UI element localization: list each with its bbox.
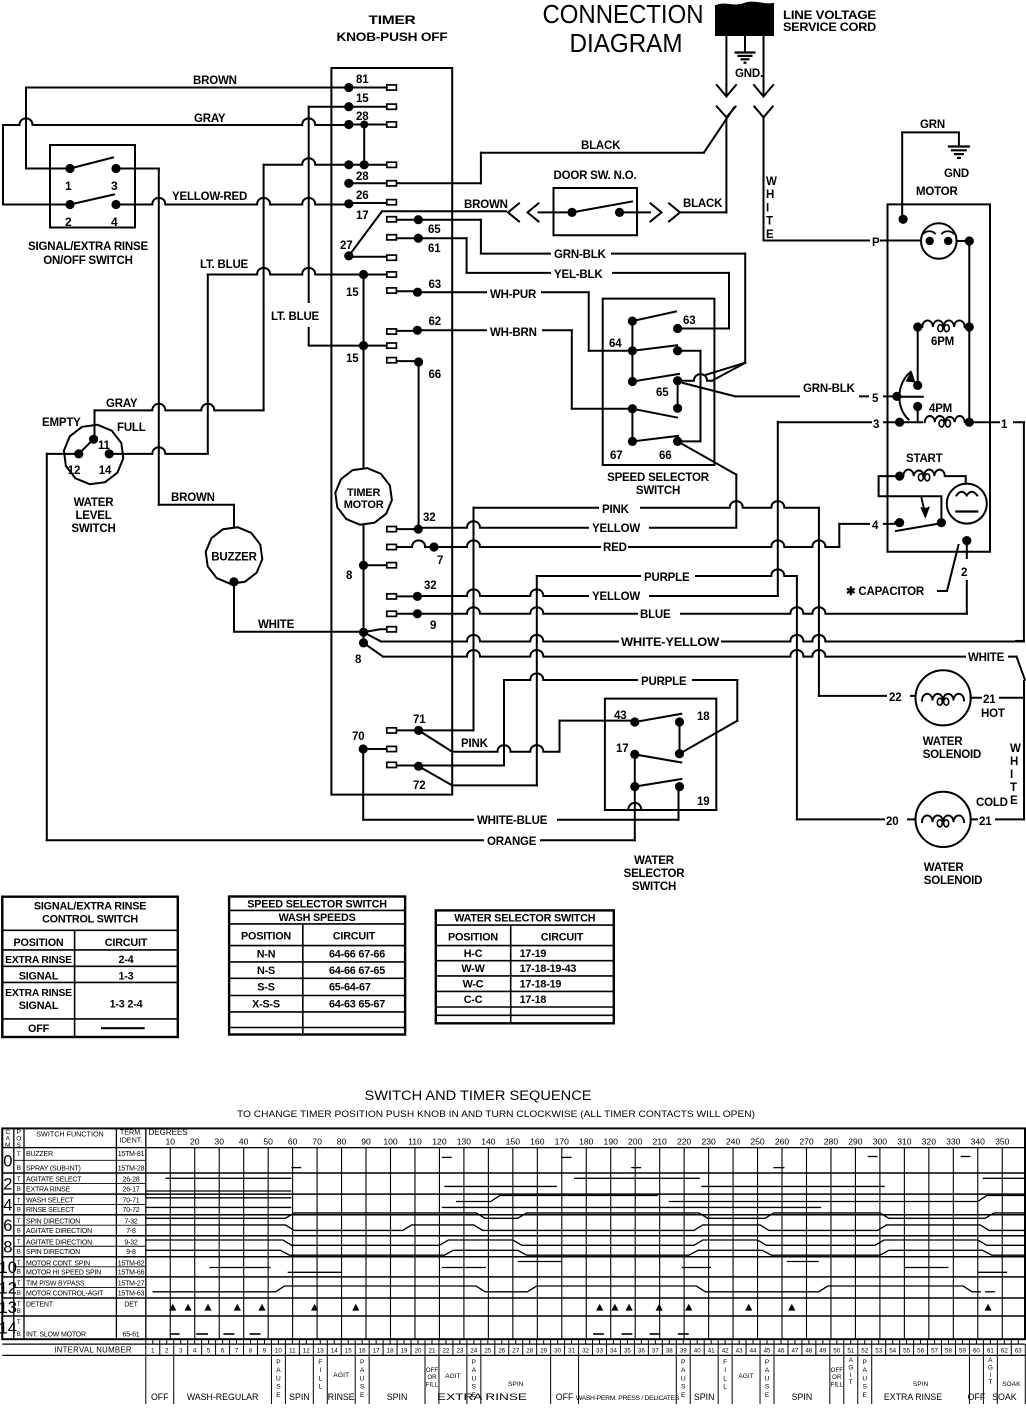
svg-text:U: U	[360, 1375, 365, 1382]
svg-text:AGIT: AGIT	[445, 1373, 460, 1380]
WLS pin 14	[105, 449, 114, 458]
svg-text:T: T	[17, 1239, 21, 1246]
svg-text:LT. BLUE: LT. BLUE	[271, 311, 320, 323]
svg-text:S: S	[765, 1384, 770, 1391]
svg-text:37: 37	[652, 1347, 659, 1354]
timer 15 junction 2	[359, 341, 368, 350]
svg-text:SPRAY (SUB-INT): SPRAY (SUB-INT)	[26, 1165, 81, 1172]
svg-text:9: 9	[263, 1347, 267, 1354]
svg-text:G: G	[988, 1364, 993, 1371]
svg-text:63: 63	[429, 279, 441, 291]
riser full to ltblue1	[207, 275, 209, 454]
wire orange riser into WS	[634, 787, 636, 841]
svg-text:BROWN: BROWN	[171, 492, 215, 504]
svg-text:12: 12	[303, 1347, 310, 1354]
motor terminal 5	[892, 395, 900, 397]
svg-text:E: E	[1010, 795, 1018, 807]
timer node 8 lower dots	[359, 628, 368, 637]
timer terminal 17	[344, 199, 353, 208]
svg-text:17: 17	[356, 210, 368, 222]
wire PINK2 row 71 to water sel 43	[419, 730, 453, 751]
svg-text:24: 24	[470, 1347, 477, 1354]
svg-text:SERVICE CORD: SERVICE CORD	[783, 22, 876, 34]
svg-text:LINE VOLTAGE: LINE VOLTAGE	[783, 10, 877, 22]
door switch box	[554, 188, 638, 235]
timer node 8 lower terminal	[364, 629, 387, 632]
svg-text:58: 58	[945, 1347, 952, 1354]
svg-text:N-S: N-S	[257, 965, 275, 977]
svg-text:PINK: PINK	[461, 738, 489, 750]
svg-text:TIMER: TIMER	[347, 487, 380, 499]
svg-text:FILL: FILL	[831, 1381, 844, 1388]
svg-text:90: 90	[361, 1137, 371, 1147]
svg-text:OFF: OFF	[831, 1367, 844, 1374]
svg-text:SOLENOID: SOLENOID	[924, 875, 982, 887]
svg-text:SPIN: SPIN	[289, 1392, 310, 1402]
wire BROWN row to door switch	[382, 210, 506, 212]
svg-text:M: M	[5, 1142, 11, 1149]
wire 15a left drop	[309, 106, 345, 108]
svg-text:21: 21	[979, 816, 992, 828]
WLS blade 12-11	[79, 438, 95, 454]
wire white-blue riser into WS	[678, 787, 680, 820]
svg-text:27: 27	[340, 240, 352, 252]
svg-text:B: B	[17, 1228, 21, 1235]
plug blade arrow left	[717, 85, 736, 97]
svg-text:5: 5	[207, 1347, 211, 1354]
svg-text:72: 72	[413, 780, 425, 792]
svg-text:62: 62	[1001, 1347, 1008, 1354]
svg-text:26: 26	[498, 1347, 505, 1354]
svg-text:43: 43	[736, 1347, 743, 1354]
svg-text:OFF: OFF	[556, 1392, 574, 1402]
svg-text:70: 70	[312, 1137, 322, 1147]
svg-text:T: T	[17, 1197, 21, 1204]
svg-text:F: F	[723, 1359, 727, 1366]
svg-text:WASH-PERM. PRESS / DELICATES: WASH-PERM. PRESS / DELICATES	[576, 1395, 680, 1402]
svg-text:66: 66	[659, 450, 671, 462]
svg-text:13: 13	[0, 1299, 17, 1317]
svg-text:17-18-19-43: 17-18-19-43	[520, 963, 577, 975]
wire LT. BLUE 2 row to 15 junction2	[309, 345, 359, 347]
svg-text:FULL: FULL	[117, 422, 146, 434]
wire BLACK diagonal to connector	[704, 108, 734, 153]
svg-text:27: 27	[512, 1347, 519, 1354]
svg-text:65-61: 65-61	[123, 1332, 140, 1339]
svg-text:4: 4	[872, 520, 879, 532]
motor right vertical	[957, 240, 970, 242]
timer 15 junction 1	[359, 270, 368, 279]
svg-text:OFF: OFF	[426, 1367, 439, 1374]
wire EMPTY pin12 to orange	[47, 453, 74, 455]
svg-text:11: 11	[289, 1347, 296, 1354]
svg-text:180: 180	[579, 1137, 594, 1147]
svg-text:330: 330	[946, 1137, 961, 1147]
svg-text:SPEED SELECTOR: SPEED SELECTOR	[607, 472, 710, 484]
SS inner U link 350.8-441.4	[678, 351, 701, 442]
wire PURPLE2 row 72 to water sel 18	[503, 680, 505, 766]
svg-text:EMPTY: EMPTY	[42, 417, 81, 429]
svg-text:150: 150	[506, 1137, 521, 1147]
svg-text:T: T	[17, 1260, 21, 1267]
wire purple drop to cold 20	[796, 576, 798, 819]
svg-text:350: 350	[995, 1137, 1010, 1147]
svg-text:300: 300	[873, 1137, 888, 1147]
svg-text:BROWN: BROWN	[193, 75, 237, 87]
svg-text:FILL: FILL	[426, 1381, 439, 1388]
svg-text:H: H	[766, 189, 774, 201]
wire YEL-BLK riser to speed switch 63	[728, 273, 730, 329]
svg-text:39: 39	[680, 1347, 687, 1354]
water level switch body	[64, 425, 123, 484]
timer terminal 9 row	[413, 609, 422, 618]
svg-text:18: 18	[387, 1347, 394, 1354]
svg-text:4: 4	[193, 1347, 197, 1354]
chart interval tick row	[2, 1343, 1025, 1345]
timer terminal 63 row	[413, 288, 422, 297]
svg-text:17-19: 17-19	[520, 948, 547, 960]
svg-text:HOT: HOT	[981, 708, 1005, 720]
svg-text:COLD: COLD	[976, 797, 1008, 809]
wire FULL pin14 riser	[114, 447, 208, 454]
svg-text:14: 14	[0, 1320, 17, 1338]
svg-text:B: B	[17, 1207, 21, 1214]
svg-text:TIMER: TIMER	[369, 13, 417, 27]
svg-text:U: U	[681, 1375, 686, 1382]
switch S1 pin 4	[111, 200, 120, 209]
svg-text:MOTOR HI SPEED SPIN: MOTOR HI SPEED SPIN	[26, 1269, 101, 1276]
svg-text:70: 70	[352, 731, 364, 743]
SS right contact low	[673, 404, 682, 413]
svg-text:12: 12	[0, 1279, 17, 1297]
svg-text:W: W	[766, 176, 777, 188]
svg-text:8: 8	[3, 1238, 12, 1256]
buzzer body	[206, 527, 263, 584]
svg-text:T: T	[988, 1379, 992, 1386]
svg-text:1-3: 1-3	[118, 970, 133, 982]
svg-text:C-C: C-C	[464, 994, 483, 1006]
svg-text:60: 60	[973, 1347, 980, 1354]
svg-text:65: 65	[656, 387, 669, 399]
svg-text:I: I	[724, 1367, 726, 1374]
svg-text:GRAY: GRAY	[194, 113, 226, 125]
svg-text:1: 1	[65, 179, 72, 193]
wire pink drop to hot 22	[818, 508, 820, 696]
svg-text:4PM: 4PM	[929, 403, 952, 415]
plug blade arrow right	[754, 85, 773, 97]
table water selector switch	[436, 910, 614, 1023]
svg-text:250: 250	[750, 1137, 765, 1147]
svg-text:28: 28	[356, 171, 369, 183]
svg-text:3: 3	[873, 419, 879, 431]
svg-text:E: E	[276, 1392, 281, 1399]
svg-text:YEL-BLK: YEL-BLK	[554, 269, 603, 281]
SS contact 63	[673, 324, 682, 333]
timer terminal 71	[414, 726, 423, 735]
svg-text:BROWN: BROWN	[464, 199, 508, 211]
svg-text:17: 17	[616, 743, 628, 755]
svg-text:36: 36	[638, 1347, 645, 1354]
svg-text:3: 3	[179, 1347, 183, 1354]
motor grn dot	[899, 215, 908, 224]
wire 3row to 1	[969, 421, 1024, 423]
svg-text:GND: GND	[944, 168, 969, 180]
svg-text:2: 2	[65, 215, 72, 229]
svg-text:170: 170	[555, 1137, 570, 1147]
wire WHITE-YELLOW row node8 to motor 1	[364, 632, 382, 641]
svg-text:SIGNAL: SIGNAL	[19, 1000, 59, 1012]
door switch connector chevrons left	[508, 203, 519, 221]
svg-text:9-8: 9-8	[126, 1249, 136, 1256]
wire 28a-28b link and down to 15 junctions	[363, 125, 365, 165]
WS bottom-right contact	[675, 782, 684, 791]
svg-text:T: T	[766, 216, 773, 228]
wire PINK row 71 to hot solenoid	[473, 508, 475, 731]
svg-text:10: 10	[0, 1259, 17, 1277]
svg-text:P: P	[360, 1359, 365, 1366]
svg-text:WHITE: WHITE	[968, 652, 1005, 664]
WS contact 17	[630, 750, 639, 759]
wire 65 to GRN-BLK	[396, 219, 481, 221]
timer terminal 62 row	[413, 326, 422, 335]
svg-text:S: S	[681, 1384, 686, 1391]
svg-text:65: 65	[428, 224, 441, 236]
chart outer border	[2, 1128, 1025, 1339]
svg-text:S-S: S-S	[257, 982, 274, 994]
svg-text:9-32: 9-32	[124, 1239, 138, 1246]
svg-text:30: 30	[214, 1137, 224, 1147]
svg-text:DETENT: DETENT	[26, 1302, 54, 1309]
timer terminal 61 row	[414, 234, 423, 243]
svg-text:53: 53	[875, 1347, 882, 1354]
svg-text:B: B	[17, 1249, 21, 1256]
svg-text:WATER: WATER	[634, 855, 675, 867]
wire plug right lead	[763, 35, 765, 84]
svg-text:23: 23	[456, 1347, 463, 1354]
WLS pin 12	[74, 449, 83, 458]
svg-text:230: 230	[701, 1137, 716, 1147]
buzzer bottom lead	[229, 577, 238, 586]
svg-text:26-28: 26-28	[123, 1177, 140, 1184]
svg-text:2: 2	[961, 567, 967, 579]
svg-text:EXTRA RINSE: EXTRA RINSE	[884, 1392, 942, 1402]
timer terminal 15 row a	[344, 102, 353, 111]
svg-text:9: 9	[430, 620, 436, 632]
svg-text:SWITCH FUNCTION: SWITCH FUNCTION	[36, 1130, 103, 1139]
svg-text:SPIN: SPIN	[913, 1381, 929, 1388]
timer terminal 81	[344, 83, 353, 92]
svg-text:51: 51	[847, 1347, 854, 1354]
svg-text:MOTOR CONTROL-AGIT: MOTOR CONTROL-AGIT	[26, 1290, 104, 1297]
svg-text:U: U	[471, 1375, 476, 1382]
svg-text:340: 340	[971, 1137, 986, 1147]
svg-text:16: 16	[359, 1347, 366, 1354]
WLS pin 11	[89, 435, 98, 444]
wire BROWN timer81 to switch pin1	[26, 87, 344, 89]
svg-text:160: 160	[530, 1137, 545, 1147]
svg-text:220: 220	[677, 1137, 692, 1147]
svg-text:14: 14	[331, 1347, 338, 1354]
svg-text:140: 140	[481, 1137, 496, 1147]
svg-text:LT. BLUE: LT. BLUE	[200, 259, 249, 271]
svg-text:8: 8	[249, 1347, 253, 1354]
svg-text:SWITCH: SWITCH	[632, 881, 676, 893]
svg-text:66: 66	[429, 369, 441, 381]
svg-text:17: 17	[373, 1347, 380, 1354]
wire motor 3 riser to yellow2	[777, 422, 779, 596]
svg-text:E: E	[766, 229, 774, 241]
WS right contact mid	[675, 749, 684, 758]
svg-text:DET: DET	[124, 1302, 138, 1309]
svg-text:4: 4	[111, 215, 118, 229]
svg-text:3: 3	[111, 179, 118, 193]
svg-text:PINK: PINK	[602, 504, 630, 516]
wire ORANGE row	[47, 839, 635, 841]
svg-text:59: 59	[959, 1347, 966, 1354]
wire 26 to BLACK riser	[353, 182, 481, 184]
svg-text:35: 35	[624, 1347, 631, 1354]
chart degree grid	[169, 1148, 171, 1340]
svg-text:110: 110	[408, 1137, 422, 1147]
wire RED jog to motor 4	[838, 524, 840, 547]
svg-text:8: 8	[346, 570, 353, 582]
wire 6PM to centrifugal contact	[917, 327, 919, 385]
svg-text:48: 48	[805, 1347, 812, 1354]
svg-text:20: 20	[886, 816, 898, 828]
svg-text:SOAK: SOAK	[992, 1392, 1017, 1402]
SS left contact mid	[628, 377, 637, 386]
motor terminal 3 row	[778, 421, 888, 423]
svg-text:SIGNAL/EXTRA RINSE: SIGNAL/EXTRA RINSE	[34, 901, 146, 913]
svg-text:ON/OFF SWITCH: ON/OFF SWITCH	[43, 255, 132, 267]
svg-text:POSITION: POSITION	[448, 932, 498, 944]
svg-text:G: G	[848, 1364, 853, 1371]
switch S1 pin 3	[111, 164, 120, 173]
svg-text:SWITCH: SWITCH	[71, 523, 115, 535]
WS blade bottom	[635, 779, 682, 787]
svg-text:S: S	[360, 1384, 365, 1391]
svg-text:A: A	[472, 1367, 477, 1374]
svg-text:POSITION: POSITION	[14, 937, 64, 949]
svg-text:S: S	[472, 1384, 477, 1391]
svg-text:290: 290	[848, 1137, 863, 1147]
door switch wire and contacts	[539, 211, 569, 213]
svg-text:YELLOW-RED: YELLOW-RED	[172, 191, 247, 203]
svg-text:WHITE: WHITE	[258, 619, 295, 631]
WS vertical links	[679, 722, 681, 754]
svg-text:B: B	[17, 1269, 21, 1276]
svg-text:AGIT: AGIT	[738, 1373, 753, 1380]
svg-text:E: E	[765, 1392, 770, 1399]
svg-text:7: 7	[235, 1347, 239, 1354]
chart header bottom line	[2, 1147, 1025, 1149]
svg-text:70-72: 70-72	[123, 1207, 140, 1214]
svg-text:6: 6	[3, 1217, 12, 1235]
svg-text:N-N: N-N	[257, 949, 276, 961]
timer motor lower lead to node 8	[363, 524, 365, 643]
svg-text:10: 10	[165, 1137, 175, 1147]
svg-text:38: 38	[666, 1347, 673, 1354]
svg-text:EXTRA RINSE: EXTRA RINSE	[5, 955, 72, 966]
svg-text:SPIN DIRECTION: SPIN DIRECTION	[26, 1218, 80, 1225]
svg-text:W-C: W-C	[463, 978, 484, 990]
svg-text:280: 280	[824, 1137, 839, 1147]
start winding bracket	[879, 476, 942, 517]
svg-text:45: 45	[764, 1347, 771, 1354]
4PM top contact	[913, 402, 922, 411]
svg-text:210: 210	[652, 1137, 667, 1147]
svg-text:PURPLE: PURPLE	[644, 572, 690, 584]
svg-text:START: START	[906, 453, 943, 465]
wire plug left lead	[725, 35, 727, 84]
svg-text:U: U	[276, 1375, 281, 1382]
svg-text:SIGNAL/EXTRA RINSE: SIGNAL/EXTRA RINSE	[28, 241, 148, 253]
wire WHITE buzzer to node8	[234, 631, 359, 633]
svg-text:34: 34	[610, 1347, 617, 1354]
svg-text:15TM-27: 15TM-27	[118, 1281, 145, 1288]
svg-text:A: A	[863, 1367, 868, 1374]
svg-text:OR: OR	[427, 1374, 437, 1381]
svg-text:43: 43	[614, 710, 626, 722]
WS blade 43	[635, 714, 682, 722]
wire YELLOW row 32a to SS66	[423, 521, 736, 528]
svg-text:6PM: 6PM	[931, 336, 954, 348]
timer terminal 32 row a	[414, 525, 423, 534]
svg-text:DIAGRAM: DIAGRAM	[570, 28, 683, 58]
svg-text:P: P	[872, 237, 880, 249]
svg-text:SPIN: SPIN	[694, 1392, 715, 1402]
svg-text:WATER: WATER	[924, 862, 965, 874]
svg-text:67: 67	[610, 450, 622, 462]
switch S1 blade 2-4	[70, 195, 114, 205]
svg-text:RINSE SELECT: RINSE SELECT	[26, 1207, 75, 1214]
svg-text:12: 12	[68, 465, 80, 477]
WS contact 43	[630, 717, 639, 726]
svg-text:54: 54	[889, 1347, 896, 1354]
capacitor plates	[956, 492, 977, 496]
svg-text:P: P	[276, 1359, 281, 1366]
svg-text:SPIN: SPIN	[387, 1392, 408, 1402]
svg-text:SPIN: SPIN	[792, 1392, 813, 1402]
SS right contact mid	[673, 346, 682, 355]
wire WHITE-BLUE row	[363, 819, 678, 821]
svg-text:WATER: WATER	[923, 736, 964, 748]
svg-text:190: 190	[604, 1137, 619, 1147]
svg-text:L: L	[723, 1375, 727, 1382]
svg-text:320: 320	[922, 1137, 937, 1147]
signal/extra rinse switch box	[50, 145, 135, 228]
svg-text:44: 44	[750, 1347, 757, 1354]
connector Y left	[717, 107, 736, 118]
cold 21 wire	[971, 818, 1024, 820]
svg-text:22: 22	[889, 692, 901, 704]
wire P into circle	[905, 240, 921, 242]
svg-text:32: 32	[424, 580, 436, 592]
svg-text:GRN-BLK: GRN-BLK	[554, 249, 607, 261]
wire pin3 riser brown to buzzer	[121, 168, 159, 170]
hot water solenoid	[916, 670, 971, 725]
svg-text:26-17: 26-17	[123, 1187, 140, 1194]
svg-text:60: 60	[288, 1137, 298, 1147]
svg-text:2: 2	[3, 1176, 12, 1194]
timer terminal 32 row b	[413, 592, 422, 601]
chart detent triangles	[169, 1304, 176, 1311]
timer terminal 28 row a	[344, 120, 353, 129]
svg-text:40: 40	[239, 1137, 249, 1147]
svg-text:29: 29	[540, 1347, 547, 1354]
svg-text:42: 42	[722, 1347, 729, 1354]
svg-text:TO CHANGE TIMER POSITION PUSH: TO CHANGE TIMER POSITION PUSH KNOB IN AN…	[237, 1109, 755, 1119]
